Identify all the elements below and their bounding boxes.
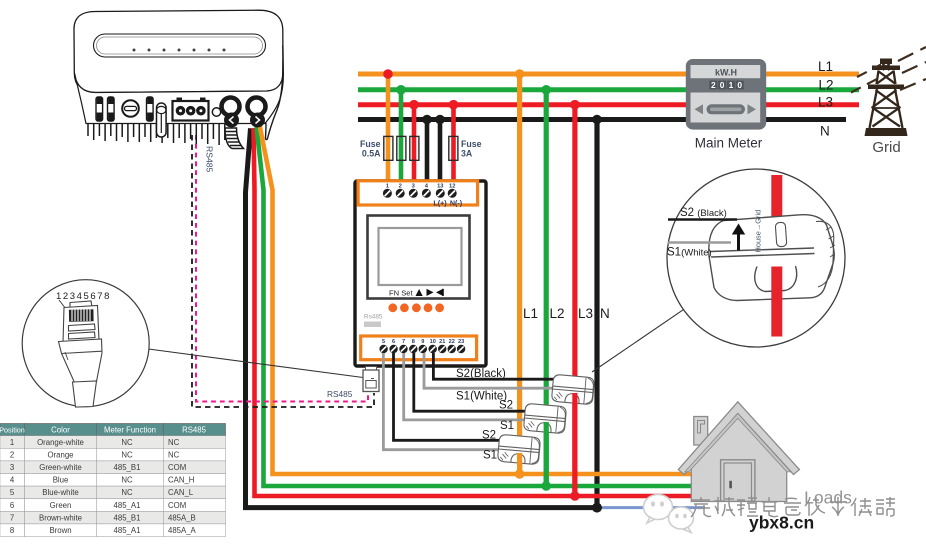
- svg-text:Green: Green: [50, 501, 72, 510]
- label RS485 adapter: [327, 389, 353, 399]
- svg-text:1: 1: [10, 438, 14, 447]
- svg-text:3: 3: [10, 463, 14, 472]
- wire CT2 S1 grey (terminal 7): [404, 353, 528, 420]
- label S1(White) detail: [667, 247, 712, 259]
- svg-text:Blue: Blue: [53, 476, 69, 485]
- watermark chinese text: [691, 497, 895, 517]
- label House-Grid rotated: [754, 210, 763, 253]
- wire CT3 S2 black (terminal 6): [394, 353, 507, 440]
- label RS485 vertical: [205, 146, 215, 172]
- svg-text:Fuse: Fuse: [461, 139, 482, 149]
- inverter small port: [212, 108, 220, 116]
- inverter DC connectors left: [96, 97, 114, 121]
- CT clamp 3 on L1: [497, 434, 540, 464]
- inverter front band: [75, 60, 284, 124]
- svg-text:L1: L1: [523, 306, 538, 321]
- label Fuse 3A: [461, 139, 482, 159]
- table row 3: [0, 461, 226, 474]
- svg-text:S1: S1: [483, 450, 497, 462]
- pin numbers bottom 5 6 7 8 9 10 21 22 23: [382, 339, 464, 345]
- wire L2 through CT2: [544, 422, 549, 486]
- label S1 bottom: [483, 450, 497, 462]
- RJ45 plug: [59, 301, 103, 407]
- wire drop to meter terminal 3 (red): [412, 105, 417, 184]
- inverter conduit ribbed: [225, 128, 244, 149]
- wire drop to meter terminal 12 (red): [451, 105, 456, 184]
- wire L3 upper bus (red): [358, 102, 859, 107]
- house door: [721, 460, 755, 502]
- table row 6: [0, 499, 226, 512]
- RJ45 pin1 leader: [59, 300, 66, 309]
- svg-text:NC: NC: [121, 476, 133, 485]
- wire drop to meter terminal 1 (orange): [386, 74, 391, 184]
- node junction on N at x440: [435, 115, 445, 125]
- svg-text:8: 8: [412, 339, 415, 345]
- inverter U1: [74, 10, 283, 148]
- watermark ybx8.cn: [749, 513, 814, 533]
- svg-text:Color: Color: [51, 425, 70, 434]
- label S2 middle: [499, 400, 513, 412]
- svg-text:22: 22: [449, 339, 455, 345]
- CT clamp 1 on L3: [551, 374, 594, 404]
- meter bottom terminal strip: [361, 336, 477, 360]
- svg-text:Brown: Brown: [49, 526, 71, 535]
- detail wire S1 grey: [668, 241, 732, 244]
- fuse F1 0.5A: [384, 136, 393, 160]
- svg-text:L2: L2: [550, 306, 565, 321]
- svg-text:Orange: Orange: [47, 450, 73, 459]
- pinout table: [0, 424, 226, 537]
- svg-text:CAN_H: CAN_H: [168, 476, 194, 485]
- node junction L1/vertical: [515, 69, 525, 79]
- button up triangle: [416, 289, 423, 296]
- label L2 vertical: [550, 306, 565, 321]
- svg-text:23: 23: [458, 339, 464, 345]
- svg-text:13: 13: [437, 183, 444, 189]
- svg-text:Grid: Grid: [872, 139, 900, 156]
- wire L1 upper bus (orange): [358, 72, 859, 77]
- svg-text:Main Meter: Main Meter: [695, 136, 763, 151]
- svg-text:0: 0: [720, 80, 725, 90]
- wire drop to meter terminal 13 (black): [438, 120, 443, 185]
- table row 7: [0, 511, 226, 524]
- table row 1: [0, 436, 226, 449]
- inverter heatsink fins: [88, 124, 225, 145]
- house chimney: [694, 417, 708, 446]
- svg-text:Fuse: Fuse: [360, 139, 381, 149]
- svg-text:L3: L3: [818, 95, 833, 110]
- wire neutral to loads (blue): [597, 506, 705, 509]
- inverter DC switch: [122, 100, 139, 117]
- inverter top face: [74, 10, 283, 92]
- label S1(White): [456, 391, 507, 403]
- label S2(Black): [456, 368, 506, 380]
- RS485 adapter: [363, 367, 379, 392]
- Main Meter kWh box: [686, 59, 766, 130]
- svg-text:485A_A: 485A_A: [168, 526, 197, 535]
- wire vertical L1 drop right (orange): [517, 74, 522, 474]
- svg-text:Green-white: Green-white: [39, 463, 81, 472]
- node junction lower black: [592, 503, 602, 513]
- svg-text:L3: L3: [578, 306, 593, 321]
- label L1 vertical: [523, 306, 538, 321]
- svg-text:N(-): N(-): [450, 198, 463, 207]
- table header row: [0, 424, 226, 436]
- svg-text:kW.H: kW.H: [715, 68, 737, 78]
- wire inverter AC orange to lower bus: [260, 125, 771, 474]
- meter rs485 port: [364, 322, 381, 328]
- wire CT3 S1 grey (terminal 5): [383, 353, 502, 450]
- node junction N/vertical: [592, 115, 602, 125]
- wire vertical N drop right (black): [594, 120, 599, 508]
- wire drop to meter terminal 2 (green): [399, 90, 404, 184]
- label L2: [819, 78, 834, 93]
- svg-text:N: N: [820, 123, 830, 138]
- CT detail circle: [667, 169, 845, 347]
- svg-text:9: 9: [421, 339, 424, 345]
- wire vertical L3 drop right (red): [572, 105, 577, 496]
- label Grid: [872, 139, 900, 156]
- leader line detail circle to CT1: [592, 310, 684, 372]
- fuse F2: [397, 136, 406, 160]
- svg-text:S1(White): S1(White): [667, 247, 712, 259]
- CT clamp 2 on L2: [523, 403, 566, 433]
- svg-text:1: 1: [729, 80, 734, 90]
- svg-text:485A_B: 485A_B: [168, 513, 196, 522]
- svg-text:RS485: RS485: [327, 389, 353, 399]
- inverter side flap: [265, 45, 283, 140]
- svg-text:6: 6: [10, 501, 14, 510]
- svg-text:12: 12: [449, 183, 455, 189]
- label FN Set: [389, 289, 414, 298]
- RS485 dashed cable magenta: [196, 135, 368, 402]
- svg-text:0: 0: [737, 80, 742, 90]
- meter terminal screws bottom: [379, 345, 465, 353]
- svg-text:S2 (Black): S2 (Black): [680, 207, 727, 219]
- svg-text:7: 7: [402, 339, 405, 345]
- svg-text:5: 5: [10, 488, 15, 497]
- detail CT clamp body: [709, 215, 835, 301]
- svg-text:S1: S1: [500, 420, 514, 432]
- table row 8: [0, 524, 226, 537]
- wire inverter AC black to lower bus: [246, 128, 598, 507]
- button enter triangle: [436, 289, 443, 296]
- wire CT2 S2 black (terminal 8): [414, 353, 532, 411]
- wire L3 through CT1: [572, 393, 577, 496]
- svg-text:12345678: 12345678: [56, 291, 111, 302]
- svg-text:Rs485: Rs485: [364, 314, 383, 321]
- detail wire S2 black: [668, 218, 737, 221]
- grid tower: [865, 59, 908, 137]
- svg-text:S2: S2: [482, 430, 496, 442]
- svg-text:COM: COM: [168, 463, 186, 472]
- inverter AC connector B: [248, 98, 266, 128]
- label N vertical: [600, 306, 610, 321]
- detail arrow up: [732, 224, 745, 251]
- svg-text:CAN_L: CAN_L: [168, 488, 194, 497]
- svg-text:House→Grid: House→Grid: [754, 210, 763, 253]
- label Fuse 0.5A: [360, 139, 381, 159]
- label L(+) N(-): [433, 198, 462, 207]
- table row 5: [0, 486, 226, 499]
- svg-text:4: 4: [10, 476, 15, 485]
- svg-text:ybx8.cn: ybx8.cn: [749, 513, 814, 533]
- wire CT1 S1 grey (terminal 9): [424, 353, 558, 388]
- node junction on L2 at x401: [396, 85, 406, 95]
- inverter LED pill: [94, 34, 266, 57]
- svg-text:L(+): L(+): [433, 198, 447, 207]
- svg-text:N: N: [600, 306, 610, 321]
- svg-text:485_B1: 485_B1: [114, 463, 141, 472]
- fuse F4 3A: [449, 136, 458, 160]
- svg-text:8: 8: [10, 526, 14, 535]
- node junction on L3 at x453: [449, 100, 459, 110]
- svg-text:FN Set: FN Set: [389, 289, 414, 298]
- node junction lower green: [541, 481, 551, 491]
- grid power line dashes: [851, 47, 926, 93]
- label S2 (Black) detail: [680, 207, 727, 219]
- node junction lower red: [570, 491, 580, 501]
- inverter com terminal block: [173, 98, 209, 121]
- wire inverter AC red to lower bus: [254, 128, 771, 496]
- watermark wechat bubbles: [644, 495, 694, 533]
- svg-text:Blue-white: Blue-white: [42, 488, 78, 497]
- wire vertical L2 drop right (green): [544, 90, 549, 486]
- svg-text:NC: NC: [121, 488, 133, 497]
- wire inverter AC green to lower bus: [257, 127, 771, 486]
- node junction L3/vertical: [570, 100, 580, 110]
- svg-text:L2: L2: [819, 78, 834, 93]
- label L3 vertical: [578, 306, 593, 321]
- detail red conductor upper: [771, 175, 782, 235]
- pin numbers top 1 2 3 4 13 12: [386, 183, 456, 189]
- wire L2 upper bus (green): [358, 87, 859, 92]
- meter top terminal strip: [358, 181, 478, 205]
- label Rs485 on meter: [364, 314, 383, 321]
- house body: [691, 414, 786, 502]
- svg-text:RS485: RS485: [182, 425, 207, 434]
- node junction lower orange: [515, 469, 525, 479]
- label Loads: [804, 488, 852, 508]
- svg-text:NC: NC: [168, 450, 180, 459]
- table row 2: [0, 448, 226, 461]
- inverter AC connector A: [222, 98, 240, 128]
- RJ45 pin numbers: [56, 291, 111, 302]
- svg-text:S2: S2: [499, 400, 513, 412]
- house roof: [678, 402, 799, 475]
- node junction L2/vertical: [541, 85, 551, 95]
- svg-text:2: 2: [399, 183, 402, 189]
- svg-text:Orange-white: Orange-white: [37, 438, 84, 447]
- svg-text:RS485: RS485: [205, 146, 215, 172]
- button right triangle: [427, 289, 434, 296]
- meter display frame: [368, 216, 470, 299]
- wire drop to meter terminal 4 (black): [425, 120, 430, 185]
- svg-text:485_B1: 485_B1: [114, 513, 141, 522]
- svg-text:0.5A: 0.5A: [362, 149, 381, 159]
- label Main Meter: [695, 136, 763, 151]
- fuse F3: [410, 136, 419, 160]
- RJ45 detail circle: [22, 280, 149, 407]
- svg-text:Meter Function: Meter Function: [104, 425, 156, 434]
- leader line RJ45 circle to adapter: [149, 349, 364, 378]
- svg-text:Position: Position: [0, 425, 25, 434]
- energy meter body: [355, 181, 486, 366]
- meter terminal screws top: [383, 189, 457, 198]
- svg-text:NC: NC: [168, 438, 180, 447]
- svg-text:NC: NC: [121, 450, 133, 459]
- svg-text:2: 2: [711, 80, 716, 90]
- svg-text:Loads: Loads: [804, 488, 852, 508]
- node junction on L3 at x414: [409, 100, 419, 110]
- svg-text:5: 5: [382, 339, 385, 345]
- svg-text:21: 21: [439, 339, 445, 345]
- svg-text:3A: 3A: [461, 149, 473, 159]
- inverter DC connector 3: [147, 97, 154, 121]
- RJ45 pin hatch: [72, 309, 90, 321]
- meter LEDs: [388, 303, 444, 312]
- svg-text:COM: COM: [168, 501, 186, 510]
- svg-text:2: 2: [10, 450, 14, 459]
- node junction on N at x427: [422, 115, 432, 125]
- svg-text:6: 6: [392, 339, 395, 345]
- wire L1 through CT3: [517, 453, 522, 474]
- inverter vent cylinder: [157, 103, 167, 137]
- wire CT1 S2 black (terminal 10): [433, 353, 562, 379]
- svg-text:Brown-white: Brown-white: [39, 513, 82, 522]
- table row 4: [0, 474, 226, 487]
- svg-text:485_A1: 485_A1: [114, 526, 141, 535]
- node junction on L1 at x388 (red dot): [383, 69, 393, 79]
- svg-text:485_A1: 485_A1: [114, 501, 141, 510]
- label L1: [818, 59, 833, 74]
- svg-text:NC: NC: [121, 438, 133, 447]
- house: [678, 402, 799, 502]
- svg-text:10: 10: [430, 339, 436, 345]
- label N: [820, 123, 830, 138]
- wire N upper bus (black): [358, 117, 846, 122]
- svg-text:L1: L1: [818, 59, 833, 74]
- svg-text:S2(Black): S2(Black): [456, 368, 506, 380]
- RS485 dashed cable black: [192, 135, 374, 407]
- svg-text:7: 7: [10, 513, 14, 522]
- detail red conductor lower: [771, 267, 782, 337]
- label L3: [818, 95, 833, 110]
- meter screen: [379, 228, 462, 285]
- label S1 middle: [500, 420, 514, 432]
- label S2 bottom: [482, 430, 496, 442]
